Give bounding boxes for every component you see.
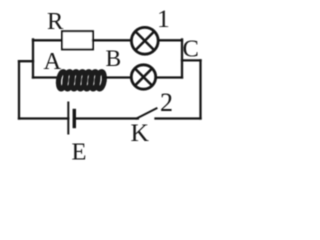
svg-text:E: E bbox=[72, 139, 87, 166]
wire battery to switch bbox=[74, 117, 138, 119]
resistor R bbox=[62, 31, 93, 49]
wire top branch middle segment bbox=[93, 39, 131, 41]
svg-text:B: B bbox=[106, 46, 122, 72]
wire right connector vertical bbox=[181, 39, 183, 77]
svg-text:2: 2 bbox=[160, 88, 173, 117]
wire right outer vertical bbox=[199, 60, 201, 118]
svg-text:C: C bbox=[183, 36, 199, 63]
wire lamp2 to right connector bbox=[156, 76, 182, 78]
svg-text:R: R bbox=[47, 8, 64, 35]
wire right tap horizontal bbox=[182, 59, 201, 61]
svg-text:A: A bbox=[44, 48, 62, 75]
lamp 2 bbox=[131, 65, 155, 89]
wire bottom left segment bbox=[19, 117, 68, 119]
inductor coil A-B bbox=[57, 71, 105, 89]
svg-text:K: K bbox=[131, 118, 150, 147]
svg-text:1: 1 bbox=[157, 4, 170, 33]
battery E short plate bbox=[73, 111, 76, 127]
switch K blade bbox=[137, 108, 157, 118]
wire middle branch left segment bbox=[33, 76, 58, 78]
wire left tap horizontal bbox=[19, 60, 33, 62]
battery E long plate bbox=[67, 103, 69, 134]
wire left outer vertical bbox=[18, 61, 20, 118]
wire top branch left segment bbox=[33, 39, 62, 41]
lamp 1 bbox=[131, 27, 158, 54]
wire switch to right corner bbox=[156, 117, 201, 119]
wire middle branch right segment bbox=[103, 76, 131, 78]
wire top branch right segment bbox=[158, 39, 182, 41]
wire left connector vertical bbox=[32, 39, 34, 77]
